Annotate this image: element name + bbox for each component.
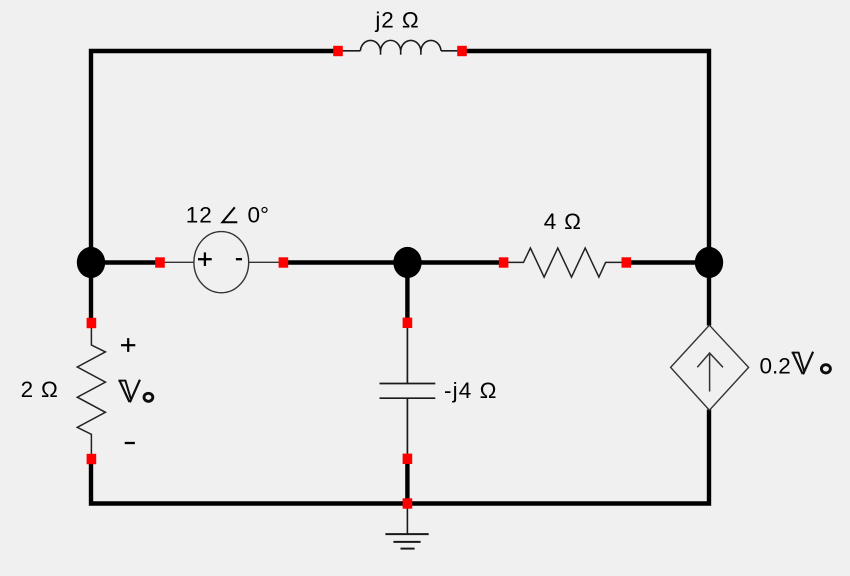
svg-text:0°: 0° — [248, 203, 270, 228]
terminal marker R1 top — [87, 318, 97, 328]
R1 minus polarity — [125, 442, 135, 444]
terminal marker L1 left — [333, 46, 343, 56]
voltage source V1 (12 ang 0) — [164, 232, 279, 293]
terminal marker L1 right — [457, 46, 467, 56]
terminal marker C1 top — [403, 318, 413, 328]
resistor R2 (4 ohm) — [508, 248, 622, 277]
terminal marker R2 left — [499, 257, 509, 267]
wire capacitor branch top — [405, 263, 409, 324]
terminal marker C1 bottom — [403, 454, 413, 464]
terminal marker R2 right — [622, 257, 632, 267]
svg-text:4 Ω: 4 Ω — [544, 209, 582, 234]
wire top-left + left vertical — [91, 51, 335, 319]
resistor R1 (2 ohm) — [77, 327, 105, 455]
R1 plus polarity — [121, 338, 135, 352]
wire capacitor branch bottom — [405, 459, 409, 504]
svg-text:12: 12 — [186, 203, 213, 228]
terminal marker V1 left — [155, 257, 165, 267]
svg-text:0.2: 0.2 — [760, 354, 791, 379]
wire middle row: resistor R2 to node C — [625, 260, 709, 264]
ground — [385, 508, 428, 549]
svg-text:2 Ω: 2 Ω — [21, 377, 59, 402]
I1 arrow — [697, 353, 723, 392]
terminal marker V1 right — [279, 257, 289, 267]
ground junction marker — [403, 498, 413, 508]
wire middle row: source V1 to resistor R2 — [282, 260, 505, 264]
V1 minus sign — [236, 258, 242, 260]
node C (right middle) — [695, 247, 723, 278]
wire bottom loop: left leg, bottom run, right leg up to current source — [91, 410, 709, 504]
label Vo (blackboard V + bold o) — [118, 380, 140, 403]
V1 plus sign — [198, 252, 212, 266]
svg-text:j2 Ω: j2 Ω — [374, 8, 419, 33]
wire top-right + right vertical down to current source — [465, 51, 709, 326]
node B (center middle) — [393, 247, 421, 278]
wire middle row: node A to source V1 — [91, 260, 161, 264]
capacitor C1 (-j4 ohm) — [380, 327, 436, 455]
terminal marker R1 bottom — [87, 454, 97, 464]
inductor L1 (j2 ohm) — [342, 40, 458, 54]
svg-text:-j4 Ω: -j4 Ω — [444, 378, 498, 403]
angle symbol — [222, 207, 237, 222]
node A (left middle) — [77, 247, 105, 278]
dependent current source I1 (0.2 Vo) diamond — [671, 325, 749, 410]
